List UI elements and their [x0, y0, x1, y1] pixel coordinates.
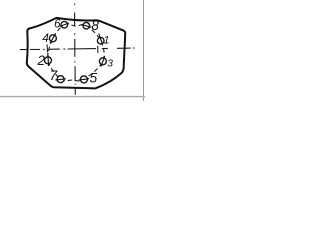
bolt hole 8 (top-right) — [81, 22, 91, 29]
svg-text:6: 6 — [54, 18, 61, 30]
bolt hole 3 (right-lower) — [99, 56, 106, 66]
vertical centerline (dash-dot) — [74, 4, 77, 95]
svg-text:5: 5 — [90, 71, 98, 86]
svg-text:4: 4 — [42, 31, 49, 45]
bolt hole 1 (right-upper) — [97, 34, 104, 45]
svg-text:2: 2 — [37, 53, 46, 68]
bottom gray rule — [0, 96, 145, 98]
dashed bolt circle through the 8 holes — [48, 24, 104, 81]
octagon plate outline — [27, 18, 125, 88]
svg-text:1: 1 — [103, 35, 109, 47]
bolt hole 2 (left-lower) — [45, 53, 52, 66]
bolt hole 4 (left-upper) — [49, 33, 56, 43]
svg-text:8: 8 — [91, 18, 99, 33]
horizontal centerline (dash-dot) — [20, 44, 135, 53]
bolt hole 7 (bottom-left) — [55, 76, 65, 83]
bolt hole 6 (top-left) — [60, 21, 69, 28]
bolt hole 5 (bottom-right) — [79, 76, 90, 83]
right page border — [143, 0, 145, 101]
svg-text:7: 7 — [49, 67, 58, 83]
svg-text:3: 3 — [107, 59, 113, 70]
